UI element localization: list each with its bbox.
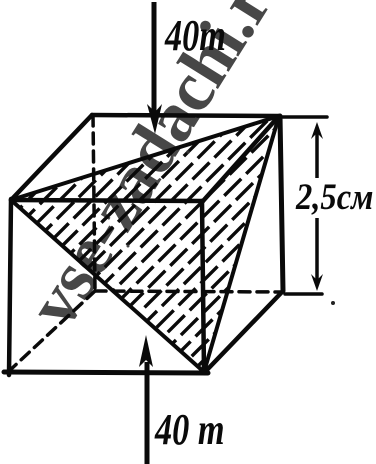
dimension arrow up: [315, 130, 319, 178]
label 40t bottom: [154, 405, 224, 454]
force arrow bottom: [145, 362, 150, 464]
svg-text:40т: 40т: [164, 11, 226, 60]
scan speck: [331, 301, 335, 305]
dimension extension bottom: [285, 292, 322, 296]
label 40t top: [164, 11, 226, 60]
cube edge A'B' top-back: [92, 115, 279, 116]
dimension extension top: [281, 115, 327, 119]
cube edge CD front-bottom: [4, 372, 208, 373]
hidden edge CC' dashed: [8, 291, 95, 372]
label 2,5cm: [295, 176, 373, 217]
section line AB' top diagonal: [11, 116, 279, 200]
cube edge BB' top-right: [203, 116, 279, 201]
cube edge BD front-right: [202, 201, 204, 372]
cube edge D'D bottom-right: [204, 292, 282, 373]
cube edge AB front-top: [11, 200, 203, 201]
svg-text:2,5см: 2,5см: [295, 176, 373, 217]
dimension arrow down: [315, 218, 319, 284]
section line AD front diagonal: [11, 200, 204, 372]
scan speck: [127, 245, 130, 248]
force arrow top: [152, 2, 157, 112]
hidden edge A'C' dashed: [93, 115, 95, 291]
cube edge B'D' back-right: [280, 116, 283, 291]
section line B'D right diagonal: [204, 116, 279, 372]
svg-text:40 т: 40 т: [154, 405, 224, 454]
cube edge AC front-left: [9, 199, 11, 375]
hidden edge C'D' dashed: [95, 291, 282, 292]
cube edge AA' top-left: [11, 115, 92, 200]
scan speck: [186, 150, 189, 153]
